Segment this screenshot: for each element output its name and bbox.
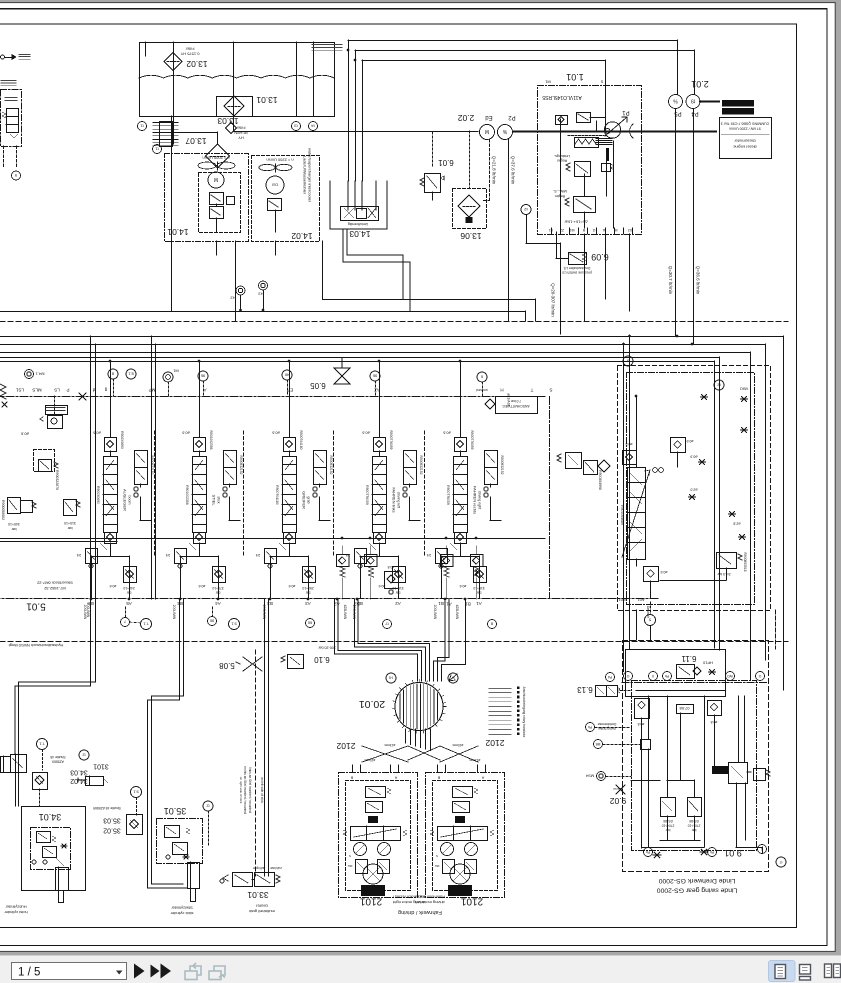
valve section GREIFER side compensator <box>314 451 327 468</box>
node t7b <box>383 620 392 629</box>
motor valve row2 <box>366 802 383 813</box>
svg-text:2/4: 2/4 <box>256 553 261 557</box>
swing horizontal channel <box>636 690 725 692</box>
svg-text:AUSLEGER: AUSLEGER <box>123 489 128 511</box>
continuous layout button <box>800 965 811 975</box>
svg-text:Druckschalter LS: Druckschalter LS <box>563 266 590 270</box>
wire Q36.6 <box>693 109 695 345</box>
valve section FAHREN links spool <box>373 457 387 465</box>
svg-text:water/supercharger intercooler: water/supercharger intercooler <box>308 148 313 203</box>
svg-text:Pb: Pb <box>588 725 592 729</box>
cooler bus wire y50 <box>355 50 694 52</box>
svg-text:20.01: 20.01 <box>359 698 385 710</box>
svg-text:R901002356: R901002356 <box>185 485 189 505</box>
tank fluid wavy line <box>139 75 334 78</box>
valve section STIEL side compensator <box>224 451 237 468</box>
bus wire y361 <box>0 361 714 363</box>
svg-text:MP: MP <box>149 387 156 392</box>
svg-text:R900X0690: R900X0690 <box>120 431 124 449</box>
valve section STIEL spool <box>193 457 207 465</box>
svg-text:6.10: 6.10 <box>314 655 330 664</box>
swing outer dashed box <box>623 641 769 872</box>
motor rotor <box>363 864 383 884</box>
motor black orifice <box>455 816 465 823</box>
shuttle 34.02/34.03 <box>33 773 48 790</box>
temp sensor note <box>312 44 342 46</box>
svg-text:ø0.6: ø0.6 <box>362 431 370 435</box>
svg-text:P2: P2 <box>508 114 516 120</box>
svg-text:M: M <box>614 228 617 232</box>
svg-text:R900704180: R900704180 <box>275 485 279 505</box>
hose boundary y321 <box>0 321 788 323</box>
valve section FAHREN links secondary relief B <box>393 567 406 583</box>
valve section GREIFER bottom cap <box>284 533 296 544</box>
svg-text:270+/-10: 270+/-10 <box>687 823 700 827</box>
motor relief pair <box>443 860 455 874</box>
swing brake assembly <box>712 766 728 774</box>
filter 13.01 <box>217 97 253 117</box>
svg-text:H3: H3 <box>258 292 264 297</box>
svg-text:13.06: 13.06 <box>460 231 482 241</box>
left drop wires <box>90 336 92 599</box>
svg-text:A3: A3 <box>305 601 311 606</box>
svg-text:A1: A1 <box>476 601 482 606</box>
svg-text:A11VLO145LRS5: A11VLO145LRS5 <box>542 94 582 100</box>
node 9b2 <box>370 371 380 381</box>
svg-text:ø2.0: ø2.0 <box>690 488 697 492</box>
motor black orifice <box>368 816 378 823</box>
svg-text:8.1: 8.1 <box>127 372 133 377</box>
last page button <box>151 965 160 978</box>
motor output block <box>361 885 385 896</box>
svg-text:Lade/U/Wasserkühler: Lade/U/Wasserkühler <box>303 156 308 195</box>
svg-text:bar: bar <box>11 527 17 531</box>
svg-text:ø0.6: ø0.6 <box>459 584 466 588</box>
channel wire y538 <box>0 538 545 540</box>
node t6 <box>386 673 396 683</box>
node M1 <box>163 372 173 382</box>
svg-text:ø0.9: ø0.9 <box>690 455 697 459</box>
svg-text:HY: HY <box>238 136 244 141</box>
pump main circle P1 <box>604 122 620 138</box>
svg-text:P: P <box>66 387 69 392</box>
relief 6.01 <box>425 174 441 193</box>
svg-text:O: O <box>758 674 761 678</box>
drain node H2 <box>236 286 245 295</box>
svg-text:1 / 5: 1 / 5 <box>18 967 40 979</box>
svg-text:S: S <box>436 854 438 858</box>
fan 14.01 blades <box>198 162 216 169</box>
fan 14.02 blades <box>259 164 275 170</box>
svg-text:R901002356: R901002356 <box>209 431 213 450</box>
valve section AUSLEGER side compensator <box>135 451 148 468</box>
history forward icon (disabled) <box>209 966 225 980</box>
pump outlet wire <box>613 141 615 228</box>
svg-text:R900X0690: R900X0690 <box>96 486 100 504</box>
valve section AUSLEGER secondary relief B <box>124 567 137 583</box>
breather symbol <box>1 55 5 59</box>
svg-text:Q=20-307 ltr/min: Q=20-307 ltr/min <box>550 283 555 317</box>
valve section AUSLEGER solenoid cap <box>105 438 117 452</box>
gauge P5 <box>669 95 683 109</box>
valve section GREIFER check circles <box>313 487 317 491</box>
svg-text:H2: H2 <box>230 296 236 301</box>
svg-text:MWL.-S-: MWL.-S- <box>552 189 567 193</box>
svg-text:auf/open: auf/open <box>253 866 266 870</box>
history back icon (disabled) <box>185 963 201 980</box>
svg-text:13.01: 13.01 <box>256 95 278 105</box>
filter cap swing right <box>671 438 686 453</box>
engine box Dieselmotor <box>720 118 772 159</box>
svg-text:13.07: 13.07 <box>185 136 207 146</box>
svg-text:Filter: Filter <box>236 126 246 131</box>
svg-text:Leistungs-: Leistungs- <box>553 154 570 158</box>
svg-text:MLS: MLS <box>32 387 41 392</box>
swing inner dashdot <box>632 681 757 851</box>
svg-text:on right side of stick: on right side of stick <box>239 777 243 804</box>
valve section STIEL solenoid cap <box>194 438 206 452</box>
swing feed risers <box>623 344 625 640</box>
svg-text:%: % <box>673 98 678 104</box>
svg-text:66: 66 <box>307 621 312 626</box>
gauge P4 <box>686 95 700 109</box>
check circles swing <box>653 468 658 473</box>
swing feed wires <box>667 696 669 780</box>
valve section AUSLEGER wires <box>110 451 112 456</box>
cooler bus wire y40 <box>348 40 678 42</box>
brake shuttle valve <box>717 553 737 569</box>
block 5.01 right boundary <box>549 397 551 599</box>
cooler bus wire y60 <box>362 60 605 62</box>
svg-text:9.1: 9.1 <box>132 790 138 795</box>
svg-text:315+10: 315+10 <box>473 586 485 590</box>
svg-text:ø10mm: ø10mm <box>364 758 375 762</box>
svg-text:R900776059: R900776059 <box>446 485 450 505</box>
svg-text:ø14mm: ø14mm <box>612 787 623 791</box>
svg-text:Shuttle 45: Shuttle 45 <box>50 755 65 759</box>
valve section GREIFER secondary relief B <box>303 567 316 583</box>
hoist valves <box>37 832 51 843</box>
svg-text:R900932152: R900932152 <box>500 456 504 475</box>
svg-text:Q=30.7 ltr/min: Q=30.7 ltr/min <box>668 266 673 295</box>
valve 6.11 group box <box>626 650 726 697</box>
regulator valve power <box>574 197 596 213</box>
valve section STIEL secondary relief A <box>175 549 187 564</box>
pump S-port line <box>605 85 607 131</box>
svg-text:R900932152: R900932152 <box>150 456 154 475</box>
svg-text:ø0.6: ø0.6 <box>443 431 451 435</box>
motor counterbalance valve <box>351 827 401 841</box>
valve section STIEL wires <box>199 451 201 456</box>
svg-text:3101: 3101 <box>93 762 109 769</box>
svg-text:R900853518: R900853518 <box>743 553 747 572</box>
svg-text:unused: unused <box>476 388 488 392</box>
svg-text:Filter: Filter <box>185 47 195 52</box>
stick cylinder body <box>188 863 200 889</box>
svg-text:Pb: Pb <box>710 850 714 854</box>
svg-text:A01: A01 <box>637 598 645 603</box>
valve section FAHREN links side compensator <box>404 451 417 468</box>
svg-text:A2: A2 <box>395 601 401 606</box>
svg-text:270+/-10: 270+/-10 <box>661 823 674 827</box>
svg-text:R900322870: R900322870 <box>55 470 59 490</box>
svg-text:H: H <box>500 387 503 392</box>
svg-text:HP10: HP10 <box>702 661 713 666</box>
svg-text:14.01: 14.01 <box>167 227 189 237</box>
svg-text:multishell grab: multishell grab <box>248 909 275 914</box>
svg-text:GS-65/: GS-65/ <box>663 819 673 823</box>
svg-text:425L/MIN: 425L/MIN <box>455 605 459 620</box>
swing relief valves <box>661 798 676 817</box>
svg-text:Stielzylinder: Stielzylinder <box>171 906 193 911</box>
valve section FAHREN links solenoid cap <box>374 438 386 452</box>
svg-text:07.08: 07.08 <box>679 706 690 711</box>
svg-text:14.03: 14.03 <box>349 229 371 239</box>
svg-text:boom: boom <box>128 496 132 505</box>
channel wire y541 <box>0 541 117 543</box>
valve section FAHREN links secondary relief A <box>355 549 367 564</box>
svg-text:S: S <box>600 80 603 85</box>
svg-text:t7: t7 <box>779 860 782 864</box>
svg-text:Steuerblock 6M7-22: Steuerblock 6M7-22 <box>36 581 73 586</box>
motor rotor <box>450 864 470 884</box>
svg-text:driving left: driving left <box>397 492 401 508</box>
motor valve row1 <box>453 787 473 798</box>
wire y299 <box>323 299 536 301</box>
gauge P2 2.02 <box>498 125 513 140</box>
accumulator 7.0bar unit <box>496 397 538 414</box>
svg-text:MH: MH <box>348 864 353 868</box>
svg-text:200L/MIN: 200L/MIN <box>262 605 266 620</box>
svg-text:M1: M1 <box>172 369 178 374</box>
valve section STIEL check circles <box>223 487 227 491</box>
svg-text:40: 40 <box>284 373 289 378</box>
plate 07.08 <box>677 705 694 714</box>
travel check boxes <box>337 555 350 567</box>
svg-text:R900776059: R900776059 <box>389 431 393 450</box>
motor 14.02 <box>266 176 284 194</box>
svg-text:Fahrmotor links /: Fahrmotor links / <box>414 895 445 900</box>
svg-text:ø0.5: ø0.5 <box>660 570 667 574</box>
valve section FAHREN links check circles <box>403 487 407 491</box>
bus wire y357 <box>0 357 719 359</box>
svg-text:R900932152: R900932152 <box>329 456 333 475</box>
valve section FAHREN links port risers <box>360 556 362 598</box>
svg-text:t-6: t-6 <box>389 676 393 680</box>
svg-text:2/4-5 bar: 2/4-5 bar <box>717 572 731 576</box>
bottom solenoid swing <box>644 567 659 582</box>
svg-text:Umluftventilg: Umluftventilg <box>348 222 368 226</box>
gauge Ed 2.02 <box>480 125 495 140</box>
svg-text:R900704180: R900704180 <box>299 431 303 450</box>
valve section STIEL port risers <box>180 556 182 598</box>
svg-text:2.01: 2.01 <box>691 79 709 89</box>
hose boundary dashes <box>0 641 788 643</box>
tank 13.00 outline <box>140 43 335 117</box>
bus stubs to sections <box>110 361 112 437</box>
grab hoses <box>264 599 266 877</box>
shuttle o0.8 travel <box>385 572 399 589</box>
valve section FAHREN rechts secondary relief B <box>474 567 487 583</box>
motor counterbalance valve <box>438 827 488 841</box>
valve section FAHREN rechts side compensator <box>485 451 498 468</box>
node Pd outside <box>606 673 615 682</box>
node 9b3 <box>208 617 217 626</box>
facing pages layout button <box>825 964 832 978</box>
svg-text:ø0.6: ø0.6 <box>93 431 101 435</box>
wire filter to gauges <box>233 131 478 133</box>
svg-text:GS-65/: GS-65/ <box>689 819 699 823</box>
svg-text:MS4: MS4 <box>585 774 594 779</box>
hoist unit 34.01 <box>22 807 86 891</box>
svg-text:Anschlussbelegung rotary trans: Anschlussbelegung rotary translator <box>522 687 526 739</box>
svg-text:6.13: 6.13 <box>577 685 593 694</box>
motor relief pair <box>356 860 368 874</box>
svg-text:200L/MIN: 200L/MIN <box>172 605 176 620</box>
valve section GREIFER solenoid cap <box>284 438 296 452</box>
svg-text:ø0.6: ø0.6 <box>288 584 295 588</box>
union risers to travel <box>405 729 407 743</box>
svg-text:Pb: Pb <box>646 850 650 854</box>
svg-text:B1: B1 <box>438 601 444 606</box>
node 7.1 <box>141 619 152 630</box>
svg-text:R901064689: R901064689 <box>620 505 624 525</box>
svg-text:P5: P5 <box>674 110 682 116</box>
inner dashdot box <box>627 373 755 605</box>
svg-text:swing brake: swing brake <box>598 726 616 730</box>
svg-text:Hubzylinder: Hubzylinder <box>5 905 27 910</box>
svg-text:Dieselmotor: Dieselmotor <box>734 139 756 144</box>
svg-text:5.01: 5.01 <box>26 600 46 611</box>
svg-text:Fahrwerk / driving: Fahrwerk / driving <box>398 909 442 915</box>
node 9 right <box>623 356 633 366</box>
svg-text:ANSCHMITTWEG: ANSCHMITTWEG <box>502 404 530 408</box>
svg-text:6.05: 6.05 <box>310 381 326 390</box>
travel hoses to rotary union <box>335 599 418 681</box>
svg-text:0.1575 HY: 0.1575 HY <box>180 52 199 57</box>
svg-text:13.03: 13.03 <box>217 116 239 126</box>
svg-text:on left side of stick: on left side of stick <box>260 777 264 804</box>
svg-text:WO: WO <box>727 674 733 678</box>
svg-text:6.11: 6.11 <box>681 654 697 663</box>
suction filter diamond <box>206 144 230 168</box>
svg-text:13.02: 13.02 <box>186 59 208 69</box>
svg-text:P4: P4 <box>691 110 699 116</box>
arrow pointer <box>449 674 457 681</box>
svg-text:CUMMINS QSB6.7-C99 Tier 3: CUMMINS QSB6.7-C99 Tier 3 <box>721 122 770 126</box>
pilot valve mid <box>571 421 581 431</box>
svg-text:33.01: 33.01 <box>247 890 269 900</box>
svg-text:M4.1: M4.1 <box>35 372 45 377</box>
svg-text:ø0.6: ø0.6 <box>272 431 280 435</box>
svg-text:Drehbremse: Drehbremse <box>598 722 617 726</box>
svg-text:14.02: 14.02 <box>291 231 313 241</box>
svg-text:250+10: 250+10 <box>302 586 314 590</box>
svg-text:2101: 2101 <box>460 895 483 906</box>
pilot reduce valve <box>48 416 63 429</box>
svg-text:A4: A4 <box>215 601 221 606</box>
svg-text:1.01: 1.01 <box>566 72 584 82</box>
svg-text:driving right: driving right <box>478 491 482 510</box>
node MS4 <box>597 772 606 781</box>
swing feed dashed box <box>618 366 771 611</box>
filter 13.06 <box>453 189 487 229</box>
valve section AUSLEGER bottom cap <box>105 533 117 544</box>
svg-text:Regler: Regler <box>556 158 567 162</box>
shuttle 35.02/35.03 <box>127 815 143 835</box>
svg-text:Pb: Pb <box>665 674 669 678</box>
svg-text:ø13mm: ø13mm <box>469 758 480 762</box>
tank node H1 <box>138 122 147 131</box>
svg-text:Shuttle 45 A25869: Shuttle 45 A25869 <box>93 806 121 810</box>
svg-text:VBO: VBO <box>740 387 748 392</box>
node 7 <box>121 618 130 627</box>
svg-text:9.1: 9.1 <box>230 622 236 627</box>
svg-text:ø2.8: ø2.8 <box>733 522 740 526</box>
grab valve 33.01 <box>233 873 253 887</box>
svg-text:Regler: Regler <box>554 194 565 198</box>
node 9.1 <box>229 619 240 630</box>
svg-text:FAHREN links: FAHREN links <box>392 487 397 512</box>
wire y311 <box>0 311 525 313</box>
node t7a <box>448 673 458 683</box>
valve section FAHREN rechts bottom cap <box>455 533 467 544</box>
svg-text:ø13mm: ø13mm <box>384 743 395 747</box>
svg-text:345+10: 345+10 <box>8 522 20 526</box>
svg-text:34.01: 34.01 <box>39 812 62 822</box>
cooler fan unit 14.01 <box>165 154 249 242</box>
pump port row <box>551 228 553 234</box>
svg-text:n = 2200 U/min: n = 2200 U/min <box>266 158 293 163</box>
svg-text:425L/MIN: 425L/MIN <box>343 605 347 620</box>
verticals to motors <box>352 765 354 772</box>
svg-text:stick: stick <box>217 496 221 503</box>
node t2 circle <box>521 205 531 215</box>
travel section FAHREN rechts smallvalve <box>566 453 582 469</box>
valve section AUSLEGER secondary relief A <box>86 549 98 564</box>
svg-text:LS: LS <box>54 387 60 392</box>
svg-text:ø0.8: ø0.8 <box>387 565 394 569</box>
svg-text:n = 2000 U/min: n = 2000 U/min <box>202 156 229 161</box>
svg-text:MB: MB <box>596 742 601 746</box>
svg-text:97 kW / 2200 U/min: 97 kW / 2200 U/min <box>729 127 761 131</box>
node 9 <box>12 171 21 180</box>
relief valve 315bar <box>64 500 77 516</box>
svg-text:M1: M1 <box>544 80 550 85</box>
svg-text:P1: P1 <box>622 109 630 115</box>
travel motor 21.01 box <box>339 773 418 898</box>
svg-text:9b: 9b <box>209 619 214 624</box>
plug marks <box>701 395 708 400</box>
valve section AUSLEGER check circles <box>134 487 138 491</box>
svg-text:M1: M1 <box>570 228 575 232</box>
svg-text:Linde Drehwerk GS-2000: Linde Drehwerk GS-2000 <box>658 877 735 884</box>
drain node H3 <box>259 281 268 290</box>
node 66 <box>306 619 315 628</box>
svg-text:M7-1582-32: M7-1582-32 <box>43 586 65 591</box>
node t2b <box>79 750 89 760</box>
svg-text:S: S <box>549 387 552 392</box>
swing bottom nodes <box>644 848 653 857</box>
svg-text:FAHREN rechts: FAHREN rechts <box>473 486 478 514</box>
svg-text:Q=21.8 ltr/min: Q=21.8 ltr/min <box>491 156 496 185</box>
pump internal wires <box>584 174 586 196</box>
valve section FAHREN rechts port risers <box>441 556 443 598</box>
svg-text:200-20 bar: 200-20 bar <box>318 646 336 650</box>
svg-text:MH: MH <box>435 864 440 868</box>
svg-text:GREIFER: GREIFER <box>302 491 307 509</box>
shaft to engine <box>700 100 719 102</box>
